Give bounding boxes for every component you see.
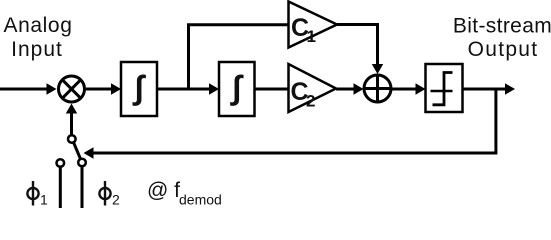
svg-text:demod: demod	[179, 192, 222, 208]
amplifier C2	[289, 64, 337, 112]
wire integrator2 to C2	[255, 88, 291, 91]
label Bit-stream Output	[453, 15, 551, 62]
svg-text:@ f: @ f	[147, 179, 180, 202]
wire switch pole to multiplier	[66, 104, 77, 136]
switch arm	[74, 142, 81, 159]
summer	[364, 75, 391, 102]
contact phi1	[57, 159, 65, 208]
wire input to multiplier	[0, 83, 57, 94]
wire integrator1 to integrator2	[157, 83, 219, 94]
svg-text:2: 2	[112, 192, 120, 208]
wire comparator to output	[463, 83, 516, 94]
label Analog Input	[4, 14, 73, 61]
label phi2	[99, 181, 120, 208]
integrator 1 box	[121, 62, 157, 116]
wire C1 output to summer	[337, 25, 383, 75]
integrator 2 box	[219, 62, 255, 116]
svg-text:Bit-stream: Bit-stream	[453, 15, 551, 38]
label phi1	[27, 181, 48, 208]
switch pole contact	[68, 135, 76, 143]
wire C2 to summer	[336, 83, 364, 94]
svg-text:Input: Input	[11, 38, 63, 61]
svg-text:2: 2	[306, 92, 315, 111]
wire multiplier to integrator1	[86, 83, 121, 94]
svg-text:Analog: Analog	[4, 14, 73, 37]
contact phi2	[78, 159, 86, 208]
wire branch node to C1 input	[189, 25, 291, 89]
svg-text:1: 1	[40, 192, 48, 208]
feedback wire	[84, 89, 496, 159]
amplifier C1	[289, 2, 338, 48]
comparator box	[426, 64, 463, 112]
wire summer to comparator	[392, 83, 426, 94]
comparator sign-function glyph	[431, 73, 453, 105]
svg-text:Output: Output	[468, 38, 539, 61]
label @ f_demod	[147, 179, 222, 208]
svg-text:1: 1	[307, 27, 316, 46]
multiplier (chopper) X1	[59, 76, 85, 102]
